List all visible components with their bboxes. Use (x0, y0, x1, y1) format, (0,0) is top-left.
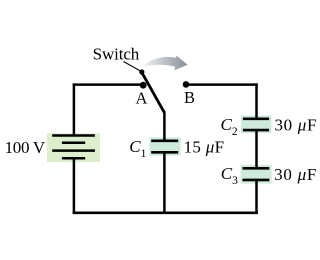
capacitor C1 (151, 141, 178, 153)
svg-text:30 μF: 30 μF (274, 165, 316, 184)
wire right middle (255, 130, 258, 169)
capacitor C3 (243, 168, 270, 180)
battery highlight plate (47, 133, 100, 162)
svg-text:Switch: Switch (93, 44, 140, 63)
svg-text:C2: C2 (221, 115, 238, 138)
battery 100 V (52, 136, 95, 159)
capacitor C2 highlight plate (241, 116, 272, 134)
node B dot (183, 81, 190, 88)
wire left (73, 83, 76, 135)
wire left lower (73, 158, 76, 214)
node A dot (140, 82, 147, 89)
wire B to right (186, 83, 258, 86)
svg-text:100 V: 100 V (5, 138, 46, 157)
svg-text:A: A (136, 89, 148, 108)
wire bottom (73, 212, 258, 215)
wire right upper (255, 83, 258, 118)
svg-text:C1: C1 (129, 137, 146, 160)
capacitor C1 highlight plate (150, 137, 181, 155)
switch lever (142, 72, 165, 112)
switch pivot dot (139, 69, 144, 74)
svg-text:15 μF: 15 μF (184, 137, 225, 156)
svg-text:B: B (184, 88, 195, 107)
capacitor C3 highlight plate (241, 165, 272, 184)
arrow from A to B (145, 56, 188, 71)
wire right lower (255, 180, 258, 214)
switch pointer line (124, 62, 141, 72)
svg-text:C3: C3 (221, 164, 238, 187)
wire middle branch upper (163, 112, 166, 142)
wire top left (73, 83, 142, 86)
capacitor C2 (243, 119, 269, 130)
wire middle branch lower (163, 152, 166, 214)
svg-text:30 μF: 30 μF (275, 115, 317, 134)
